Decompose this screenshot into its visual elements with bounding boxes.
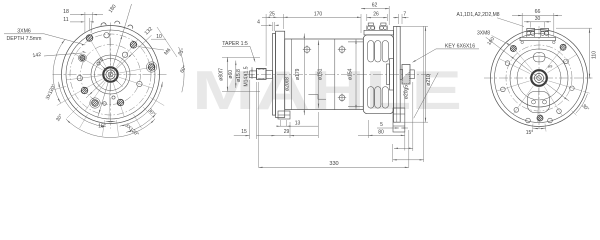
right view centerlines (484, 77, 591, 79)
svg-text:80: 80 (378, 129, 384, 135)
bottom ladder dims unlabeled (394, 147, 413, 149)
svg-text:110: 110 (592, 51, 598, 59)
drive end flange plate phi179 (273, 34, 276, 116)
left view plain holes (104, 33, 109, 38)
angle arc lower-right r52.5 (120, 82, 163, 126)
flange foot (278, 111, 290, 119)
svg-text:TAPER 1:5: TAPER 1:5 (222, 41, 248, 47)
crosshair symbols in body (304, 47, 310, 53)
svg-text:18: 18 (63, 9, 69, 15)
left view hatched hole lower with ring (90, 98, 100, 108)
svg-text:ø210: ø210 (426, 74, 432, 86)
left view radial spokes (88, 36, 106, 67)
right view hatched holes 3XM8 (510, 46, 516, 52)
svg-text:10: 10 (156, 34, 162, 40)
svg-text:DEPTH 7.5mm: DEPTH 7.5mm (7, 36, 42, 42)
leader diagonal near pulley (414, 73, 439, 119)
small 15 deg arc at bottom (106, 120, 116, 122)
left view circle r16 (95, 59, 127, 91)
left view hatched hole lower-left (81, 87, 88, 94)
capsule above hub (534, 53, 546, 62)
left view angle extension radials (117, 120, 119, 136)
stator body phi154 (285, 39, 364, 110)
left view hatched hole lower-mid (117, 99, 124, 106)
right view circle r29 (510, 49, 568, 107)
svg-text:ø80f7: ø80f7 (219, 68, 225, 81)
rear bracket plate phi210 (394, 26, 401, 122)
right view inner rim (495, 34, 584, 123)
svg-text:15°: 15° (98, 124, 106, 130)
drive end bracket plate phi190 (276, 31, 285, 117)
left view hatched hole upper-right (130, 42, 137, 49)
dimension 76 hub diagonal (98, 62, 122, 86)
right view radial spokes (510, 44, 532, 70)
svg-text:ø15.8: ø15.8 (236, 69, 242, 82)
svg-text:13: 13 (295, 120, 301, 126)
shaft nut square (257, 69, 267, 80)
rear foot (393, 108, 405, 132)
svg-text:ø20g5: ø20g5 (404, 85, 410, 99)
svg-text:ø154: ø154 (348, 68, 354, 80)
svg-text:25: 25 (269, 11, 275, 17)
svg-text:330: 330 (329, 161, 338, 167)
left view hatched hole M6 upper-left (86, 35, 93, 42)
vent slots top (368, 41, 374, 63)
dim 160 diagonal (486, 37, 569, 101)
left view rim clips at top (101, 23, 106, 26)
svg-text:MAHLE: MAHLE (192, 59, 462, 121)
svg-text:7: 7 (403, 12, 406, 18)
keyed shaft section hatched (402, 65, 410, 85)
right view plain bolt holes (505, 61, 510, 66)
dimension 180 diagonal (98, 4, 132, 118)
rear bearing boss (390, 59, 394, 91)
right view bolt circle dash-dot (506, 45, 572, 111)
right view circle r22 (517, 56, 561, 100)
svg-text:29: 29 (284, 129, 290, 135)
rear shaft thread tip (410, 70, 414, 79)
left view hatched hole right with ring (146, 62, 156, 72)
body interior step notch (308, 94, 318, 96)
svg-text:66: 66 (535, 9, 541, 15)
left view hub bold bearing ring (103, 67, 117, 81)
right view terminal boss (520, 37, 556, 40)
svg-text:142: 142 (32, 52, 42, 59)
svg-text:3XM8: 3XM8 (477, 30, 490, 36)
svg-text:ø179: ø179 (295, 68, 301, 80)
svg-text:170: 170 (314, 11, 323, 17)
terminal cap on rear housing (364, 30, 394, 35)
left view inner rim circle (66, 30, 155, 119)
capsule below hub (528, 92, 550, 113)
rear housing (363, 35, 393, 114)
svg-text:30: 30 (535, 16, 541, 22)
svg-text:4: 4 (257, 19, 260, 25)
angle arc left r57.5 (53, 39, 65, 103)
shaft neck (266, 70, 273, 78)
left view centerlines (53, 74, 167, 76)
angle arc lower-left r52.5 (59, 82, 106, 127)
rear shaft (400, 69, 402, 79)
angle arc bottom r63 (66, 119, 155, 137)
angle arc lower-right r60 (126, 113, 156, 132)
dimension 132 diagonal (86, 35, 152, 98)
shaft thread tip M14X1.5 (250, 71, 257, 78)
left view bolt circle dash-dot r30 (81, 45, 141, 105)
svg-text:15: 15 (241, 129, 247, 135)
svg-text:62: 62 (372, 3, 378, 9)
svg-text:A1,1D1,A2,2D2,M8: A1,1D1,A2,2D2,M8 (457, 12, 500, 18)
svg-text:M14X1.5: M14X1.5 (244, 66, 250, 86)
left view outer rim circle (62, 26, 160, 124)
svg-text:ø60: ø60 (228, 70, 234, 79)
left view boss circle r19.5 (91, 55, 130, 94)
right view outer circle (491, 30, 588, 127)
left view hatched hole mid-left with ring (79, 54, 87, 62)
middle view centerline (245, 73, 433, 75)
svg-text:ø20c8: ø20c8 (285, 77, 291, 91)
svg-text:26: 26 (373, 12, 379, 18)
vent slots bottom (368, 87, 374, 109)
left view bolt circle dash-dot r40.5 (70, 34, 151, 115)
terminal studs (368, 23, 373, 26)
body internal lines (291, 39, 293, 110)
svg-text:5: 5 (380, 122, 383, 128)
right view hub (531, 70, 547, 86)
svg-text:11: 11 (63, 17, 68, 23)
svg-text:KEY 6X6X16: KEY 6X6X16 (445, 43, 475, 49)
